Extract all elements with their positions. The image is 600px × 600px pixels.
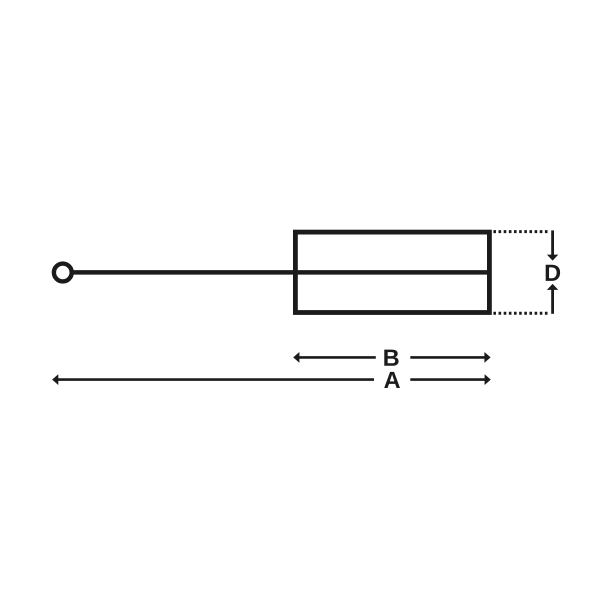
- dotted extension line top: [493, 230, 549, 233]
- D dimension lower arrow (pointing up): [547, 284, 558, 314]
- dotted extension line bottom: [493, 312, 549, 315]
- brush body rectangle: [295, 232, 489, 312]
- handle ring (eyelet): [54, 264, 72, 282]
- D dimension upper arrow (pointing down): [547, 230, 558, 260]
- A dimension line right segment with right arrow: [410, 374, 491, 385]
- B dimension line left segment with left arrow: [293, 352, 376, 363]
- label B: [384, 350, 398, 366]
- A dimension line left segment with left arrow: [52, 374, 374, 385]
- B dimension line right segment with right arrow: [410, 352, 490, 363]
- shaft wire: [72, 270, 491, 275]
- label D: [546, 265, 560, 281]
- label A: [384, 372, 400, 388]
